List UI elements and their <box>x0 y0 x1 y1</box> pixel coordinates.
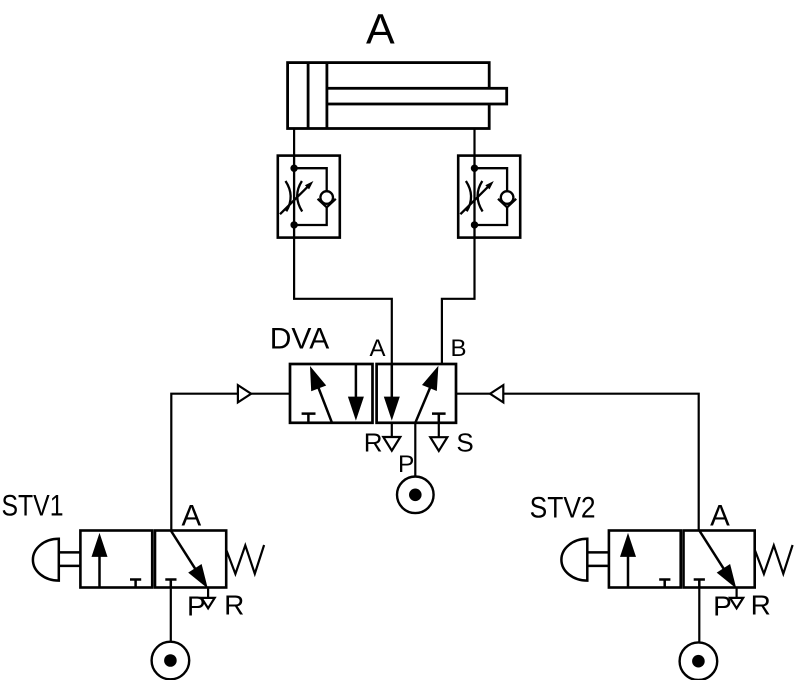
valve STV1 body <box>80 531 226 588</box>
pressure source (STV2 P) <box>680 642 718 680</box>
STV2 left position up arrow <box>620 533 636 588</box>
STV1 right position diagonal arrow (A to R) <box>171 531 208 589</box>
port label B (DVA) <box>450 335 466 362</box>
STV2 right position diagonal arrow (A to R) <box>699 531 736 589</box>
STV1 push button actuator <box>33 539 81 581</box>
pressure source (DVA P) <box>397 477 434 514</box>
STV2 push button actuator <box>561 539 609 581</box>
label A (cylinder name) <box>366 6 395 54</box>
port label P (STV2) <box>713 590 732 621</box>
exhaust R line and triangle (STV2) <box>730 589 743 609</box>
DVA right position down arrow (A to R) <box>384 364 400 421</box>
STV1 left position up arrow <box>92 533 108 588</box>
one-way flow control valve 2 <box>458 156 520 238</box>
check symbol on left pilot line <box>238 385 251 402</box>
svg-text:P: P <box>187 590 206 621</box>
svg-text:A: A <box>710 499 730 532</box>
wire STV2 A to DVA right pilot <box>503 394 698 531</box>
wire check to DVA left side <box>251 393 290 395</box>
STV1 left position blocked port T <box>130 580 141 588</box>
valve DVA body <box>290 364 456 423</box>
exhaust R line and triangle (STV1) <box>202 589 215 609</box>
svg-text:A: A <box>182 499 202 532</box>
valve STV2 body <box>609 531 755 588</box>
svg-text:S: S <box>456 427 473 457</box>
cylinder A <box>288 63 507 129</box>
svg-text:B: B <box>450 335 466 362</box>
DVA left position blocked port T <box>302 414 316 423</box>
port label A (STV1) <box>182 499 202 532</box>
svg-text:A: A <box>369 335 385 362</box>
wire cylinder left port to throttle valve 1 <box>293 129 295 157</box>
svg-text:DVA: DVA <box>270 323 329 356</box>
svg-text:R: R <box>364 427 383 457</box>
port label P (DVA) <box>398 451 414 478</box>
STV2 left position blocked port T <box>659 580 670 588</box>
port label S (DVA) <box>456 427 473 457</box>
wire STV2 port P to pressure source <box>698 588 700 643</box>
wire DVA port P to pressure source <box>414 423 416 477</box>
port label A (STV2) <box>710 499 730 532</box>
svg-text:A: A <box>366 6 395 54</box>
svg-text:P: P <box>713 590 732 621</box>
label STV2 <box>530 492 596 525</box>
svg-text:STV1: STV1 <box>2 490 64 523</box>
exhaust S line and triangle (DVA) <box>430 423 447 451</box>
DVA right position diagonal arrow (P to B) <box>415 366 438 423</box>
port label A (DVA) <box>369 335 385 362</box>
label DVA <box>270 323 329 356</box>
STV1 return spring <box>226 545 264 574</box>
STV2 right position blocked port T <box>694 580 705 588</box>
DVA left position diagonal arrow <box>310 366 332 423</box>
label STV1 <box>2 490 64 523</box>
pressure source (STV1 P) <box>152 642 190 680</box>
svg-text:STV2: STV2 <box>530 492 596 525</box>
check symbol on right pilot line <box>490 385 503 402</box>
one-way flow control valve 1 <box>278 156 340 238</box>
STV2 return spring <box>755 545 793 574</box>
STV1 right position blocked port T <box>165 580 176 588</box>
wire STV1 port P to pressure source <box>170 588 172 642</box>
exhaust R line and triangle (DVA) <box>383 423 400 451</box>
svg-text:P: P <box>398 451 414 478</box>
DVA left position down arrow <box>348 364 364 421</box>
wire cylinder right port to throttle valve 2 <box>473 129 475 157</box>
port label R (STV1) <box>224 590 244 621</box>
svg-text:R: R <box>751 590 771 621</box>
DVA right position blocked port T <box>432 414 446 423</box>
wire flow valve 2 to DVA port B <box>442 238 475 364</box>
wire STV1 A to DVA left pilot <box>171 394 238 531</box>
wire flow valve 1 to DVA port A <box>294 238 392 364</box>
wire check to DVA right side <box>456 393 490 395</box>
port label R (STV2) <box>751 590 771 621</box>
svg-text:R: R <box>224 590 244 621</box>
port label R (DVA) <box>364 427 383 457</box>
port label P (STV1) <box>187 590 206 621</box>
